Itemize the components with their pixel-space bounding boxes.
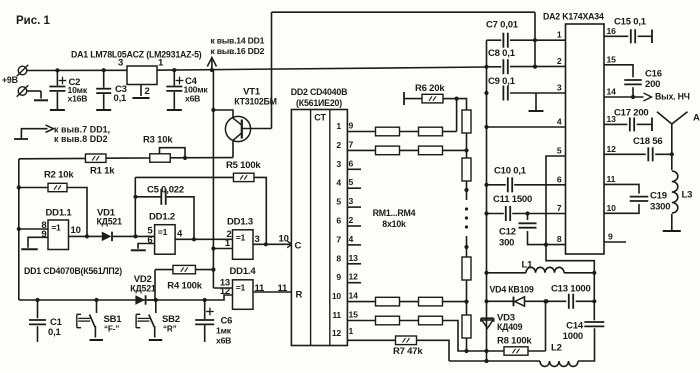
svg-text:10: 10 xyxy=(332,291,342,301)
svg-text:8x10k: 8x10k xyxy=(382,219,406,229)
svg-text:12: 12 xyxy=(220,286,230,297)
svg-text:DA1 LM78L05ACZ (LM2931AZ-5): DA1 LM78L05ACZ (LM2931AZ-5) xyxy=(71,50,202,60)
svg-text:10: 10 xyxy=(607,203,617,213)
svg-text:4: 4 xyxy=(349,234,354,244)
svg-text:0,1: 0,1 xyxy=(48,327,62,338)
svg-text:C17 200: C17 200 xyxy=(614,108,649,119)
svg-text:14: 14 xyxy=(607,87,617,97)
svg-text:CT: CT xyxy=(314,113,326,123)
svg-text:13: 13 xyxy=(349,253,359,263)
svg-text:L1: L1 xyxy=(522,260,534,271)
svg-text:5: 5 xyxy=(336,197,341,207)
svg-text:C11 1500: C11 1500 xyxy=(493,194,532,205)
svg-text:C9 0,1: C9 0,1 xyxy=(488,76,516,87)
svg-text:3: 3 xyxy=(255,234,260,245)
svg-text:VD4 КВ109: VD4 КВ109 xyxy=(490,285,534,295)
svg-text:3: 3 xyxy=(336,159,341,169)
svg-text:DD1.2: DD1.2 xyxy=(149,212,175,223)
svg-text:к выв.14 DD1: к выв.14 DD1 xyxy=(211,36,265,46)
svg-text:7: 7 xyxy=(349,139,354,149)
svg-text:x6В: x6В xyxy=(185,94,200,104)
svg-text:C13 1000: C13 1000 xyxy=(551,284,591,295)
svg-text:4: 4 xyxy=(557,117,562,127)
svg-text:300: 300 xyxy=(499,238,514,249)
svg-text:R4 100k: R4 100k xyxy=(167,281,202,292)
svg-text:9: 9 xyxy=(608,232,613,242)
svg-text:к выв.8 DD2: к выв.8 DD2 xyxy=(54,134,108,144)
svg-text:C7 0,01: C7 0,01 xyxy=(486,20,519,31)
svg-text:x6В: x6В xyxy=(216,336,231,346)
svg-text:3: 3 xyxy=(557,83,562,93)
svg-text:12: 12 xyxy=(332,328,342,338)
svg-text:=1: =1 xyxy=(236,232,246,242)
svg-text:DD1.1: DD1.1 xyxy=(46,208,73,219)
svg-text:8: 8 xyxy=(557,234,562,244)
svg-text:R7 47k: R7 47k xyxy=(393,346,423,357)
svg-text:R5 100k: R5 100k xyxy=(226,160,261,171)
svg-text:9: 9 xyxy=(349,121,354,131)
svg-text:R6 20k: R6 20k xyxy=(415,83,445,94)
svg-text:1мк: 1мк xyxy=(216,326,232,336)
svg-text:C8 0,1: C8 0,1 xyxy=(488,48,516,59)
svg-text:3300: 3300 xyxy=(650,202,670,213)
svg-text:КД521: КД521 xyxy=(97,217,123,227)
svg-text:SB2: SB2 xyxy=(162,314,180,325)
svg-text:10: 10 xyxy=(71,225,81,236)
svg-text:R: R xyxy=(296,290,303,301)
svg-text:RM1...RM4: RM1...RM4 xyxy=(373,208,416,218)
svg-text:DA2 K174ХА34: DA2 K174ХА34 xyxy=(543,12,604,22)
svg-text:15: 15 xyxy=(607,54,617,64)
svg-text:1: 1 xyxy=(349,326,354,336)
svg-text:8: 8 xyxy=(336,253,341,263)
svg-text:“F-”: “F-” xyxy=(104,325,119,334)
svg-text:C19: C19 xyxy=(650,191,667,202)
svg-text:КД409: КД409 xyxy=(497,322,523,332)
svg-text:7: 7 xyxy=(336,234,341,244)
svg-text:A: A xyxy=(693,113,700,124)
svg-text:11: 11 xyxy=(607,174,616,184)
svg-text:5: 5 xyxy=(557,146,562,156)
svg-text:3: 3 xyxy=(349,196,354,206)
svg-text:6: 6 xyxy=(557,174,562,184)
svg-text:C12: C12 xyxy=(499,227,516,238)
svg-text:=1: =1 xyxy=(236,282,246,292)
svg-text:9: 9 xyxy=(336,272,341,282)
svg-text:6: 6 xyxy=(147,235,152,246)
svg-text:10: 10 xyxy=(279,234,289,245)
svg-text:R8 100k: R8 100k xyxy=(497,336,532,347)
svg-text:DD1.4: DD1.4 xyxy=(230,266,257,277)
svg-text:C15 0,1: C15 0,1 xyxy=(614,17,647,28)
svg-text:C16: C16 xyxy=(645,69,662,80)
svg-text:4: 4 xyxy=(336,178,341,188)
svg-text:КТ3102БМ: КТ3102БМ xyxy=(234,97,277,107)
svg-text:15: 15 xyxy=(349,310,359,320)
svg-text:DD1.3: DD1.3 xyxy=(227,217,253,228)
svg-text:C10 0,1: C10 0,1 xyxy=(494,166,527,177)
svg-text:C5 0,022: C5 0,022 xyxy=(147,185,184,196)
svg-text:2: 2 xyxy=(557,56,562,66)
svg-text:11: 11 xyxy=(332,310,341,320)
svg-text:x16В: x16В xyxy=(68,94,88,104)
svg-text:C18 56: C18 56 xyxy=(633,136,662,147)
svg-text:9: 9 xyxy=(41,229,46,240)
svg-text:DD1 CD4070В(К561ЛП2): DD1 CD4070В(К561ЛП2) xyxy=(24,266,122,276)
svg-text:200: 200 xyxy=(645,79,660,90)
svg-text:к выв.16 DD2: к выв.16 DD2 xyxy=(211,46,265,56)
svg-text:R2 10k: R2 10k xyxy=(44,170,74,181)
svg-text:C14: C14 xyxy=(566,321,584,332)
svg-text:C: C xyxy=(295,241,302,252)
svg-text:“R”: “R” xyxy=(163,325,177,334)
svg-text:1: 1 xyxy=(557,30,562,40)
svg-text:L2: L2 xyxy=(551,343,562,354)
svg-text:14: 14 xyxy=(349,291,359,301)
svg-text:=1: =1 xyxy=(158,227,168,237)
svg-text:2: 2 xyxy=(336,140,341,150)
svg-text:L3: L3 xyxy=(682,190,693,201)
svg-text:5: 5 xyxy=(349,177,354,187)
svg-text:3: 3 xyxy=(118,58,123,69)
svg-text:+9В: +9В xyxy=(2,75,18,85)
svg-text:(К561ИЕ20): (К561ИЕ20) xyxy=(296,98,342,108)
svg-text:6: 6 xyxy=(349,158,354,168)
svg-text:7: 7 xyxy=(557,203,562,213)
svg-text:12: 12 xyxy=(607,144,617,154)
svg-text:DD2 CD4040В: DD2 CD4040В xyxy=(291,87,347,97)
svg-text:12: 12 xyxy=(349,272,359,282)
svg-text:11: 11 xyxy=(255,283,266,294)
svg-text:Рис. 1: Рис. 1 xyxy=(16,15,51,27)
svg-text:2: 2 xyxy=(145,86,150,97)
svg-text:Вых. НЧ: Вых. НЧ xyxy=(655,92,690,102)
svg-text:1000: 1000 xyxy=(563,331,583,342)
svg-text:2: 2 xyxy=(349,215,354,225)
svg-text:КД521: КД521 xyxy=(130,284,156,294)
svg-text:1: 1 xyxy=(336,121,341,131)
svg-text:R3 10k: R3 10k xyxy=(143,135,173,146)
svg-text:SB1: SB1 xyxy=(104,314,123,325)
svg-text:6: 6 xyxy=(336,216,341,226)
svg-text:к выв.7 DD1,: к выв.7 DD1, xyxy=(54,125,110,135)
svg-text:=1: =1 xyxy=(51,223,61,233)
svg-text:R1 1k: R1 1k xyxy=(90,166,115,177)
svg-text:0,1: 0,1 xyxy=(114,93,128,104)
svg-text:11: 11 xyxy=(278,283,289,294)
